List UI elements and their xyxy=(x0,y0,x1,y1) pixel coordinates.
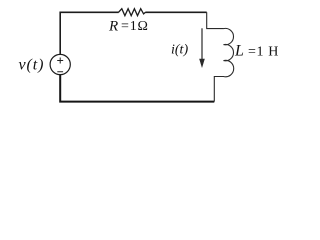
svg-text:R: R xyxy=(108,18,118,34)
svg-text:i(t): i(t) xyxy=(171,43,188,58)
svg-text:=1 H: =1 H xyxy=(248,44,279,59)
svg-text:L: L xyxy=(234,43,244,60)
svg-text:=1Ω: =1Ω xyxy=(121,19,149,34)
svg-text:v(t): v(t) xyxy=(19,56,45,73)
